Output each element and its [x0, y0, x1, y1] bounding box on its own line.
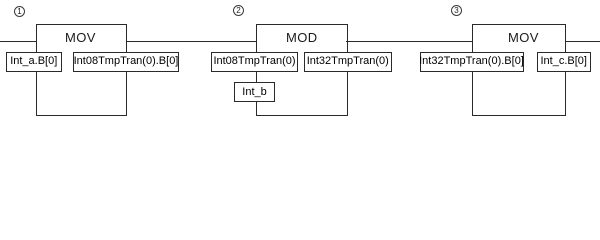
- operand box: output Int08TmpTran(0).B[0] of U1: [73, 52, 179, 72]
- operand box: input Int_a.B[0] of U1: [6, 52, 63, 72]
- wire: rail between MOV U1 and MOD U2: [126, 41, 256, 42]
- operand box: input Int32TmpTran(0).B[0] of U3: [420, 52, 524, 72]
- step number 2 (circled): [233, 5, 244, 16]
- step number 1 (circled): [14, 6, 25, 17]
- wire: rail out of MOV block U3 to right edge: [565, 41, 600, 42]
- wire: rail between MOD U2 and MOV U3: [346, 41, 472, 42]
- function block U3 label MOV: [508, 31, 539, 44]
- function block U3 MOV body: [472, 24, 566, 116]
- operand box: output Int_c.B[0] of U3: [537, 52, 591, 72]
- wire: left rail into MOV block U1: [0, 41, 36, 42]
- operand box: input Int08TmpTran(0) of U2: [211, 52, 298, 72]
- operand box: output Int32TmpTran(0) of U2: [304, 52, 392, 72]
- function block U1 MOV body: [36, 24, 127, 116]
- step number 3 (circled): [451, 5, 462, 16]
- function block U2 MOD body: [256, 24, 348, 116]
- operand box: input Int_b of U2: [234, 82, 275, 102]
- function block U1 label MOV: [65, 31, 96, 44]
- function block U2 label MOD: [286, 31, 318, 44]
